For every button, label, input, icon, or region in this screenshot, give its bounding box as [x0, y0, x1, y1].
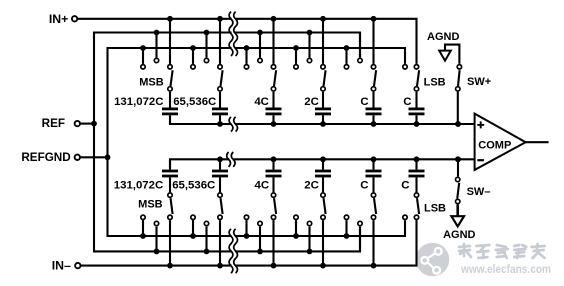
- svg-text:AGND: AGND: [427, 31, 459, 43]
- wire contact stubs switch SC1-top: [347, 19, 374, 64]
- terminal REF: [75, 121, 80, 126]
- junction SW&#8722; / bottom bus: [455, 156, 461, 162]
- svg-text:2C: 2C: [304, 96, 319, 108]
- switch S2C-top: [294, 58, 326, 91]
- svg-text:4C: 4C: [255, 179, 270, 191]
- wire contact stubs switch S65536-top: [193, 19, 220, 64]
- capacitor C (top bit LSB): [409, 92, 425, 124]
- wire break marks, top bus: [229, 117, 237, 132]
- switch SMSB-top: [141, 58, 173, 91]
- switch SMSB-bottom: [141, 193, 173, 226]
- wire REF bus: vertical + top rail 2 + bottom rail 2: [94, 33, 360, 252]
- switch SW&#8722;: [456, 177, 460, 203]
- capacitor C (bottom bit C1): [366, 159, 382, 192]
- svg-text:MSB: MSB: [139, 76, 164, 88]
- wire REFGND bus: vertical + top rail 3 + bottom rail 3: [108, 48, 406, 236]
- junction dots REF bottom rail: [154, 249, 313, 255]
- svg-text:131,072C: 131,072C: [114, 96, 163, 108]
- capacitor 2C (top bit 2C): [315, 92, 331, 124]
- ground AGND (bottom): [451, 216, 464, 226]
- junction dots bottom bus: [217, 156, 461, 162]
- svg-text:AGND: AGND: [443, 229, 475, 241]
- svg-text:C: C: [403, 96, 411, 108]
- svg-text:IN+: IN+: [49, 12, 68, 26]
- switch SW+: [456, 65, 462, 92]
- junction dots REFGND bottom rail: [140, 233, 349, 239]
- wire IN+ rail (top rail 1): [78, 19, 417, 64]
- wire contact stubs switch S65536-bottom: [193, 220, 220, 265]
- terminal REFGND: [75, 155, 80, 160]
- wire REFGND to vertical: [80, 156, 107, 158]
- wire break marks, bottom bus: [227, 152, 235, 167]
- svg-text:REFGND: REFGND: [21, 151, 70, 164]
- svg-text:REF: REF: [42, 117, 65, 130]
- capacitor 4C (bottom bit 4C): [266, 159, 282, 192]
- svg-text:SW–: SW–: [467, 186, 491, 198]
- wire contact stubs switch S2C-bottom: [296, 220, 323, 265]
- svg-text:C: C: [401, 179, 409, 191]
- junction dots top bus: [217, 121, 461, 127]
- switch SC1-bottom: [344, 193, 376, 226]
- wire IN&#8211; rail (bottom rail 1): [81, 220, 417, 265]
- capacitor 65,536C (top bit 65536): [212, 92, 228, 124]
- switch SLSB-top (LSB, 2 contacts): [403, 65, 419, 92]
- wire SW&#8722; to bus: [457, 159, 459, 176]
- switch SC1-top: [344, 58, 376, 91]
- svg-text:www.elecfans.com: www.elecfans.com: [460, 263, 551, 276]
- svg-text:MSB: MSB: [138, 199, 163, 211]
- junction dots REFGND top rail: [140, 45, 349, 51]
- wire contact stubs switch SC1-bottom: [347, 220, 374, 265]
- switch S2C-bottom: [294, 193, 326, 226]
- wire contact stubs switch S2C-top: [296, 19, 323, 64]
- terminal IN+: [72, 16, 77, 21]
- svg-text:65,536C: 65,536C: [173, 96, 216, 108]
- watermark logo circle: [416, 243, 450, 277]
- capacitor 65,536C (bottom bit 65536): [212, 159, 228, 192]
- wire SW+ to bus: [457, 92, 459, 124]
- wire comparator output: [526, 141, 549, 143]
- wire contact stubs switch SMSB-bottom: [143, 220, 170, 265]
- switch SLSB-bottom (LSB, 2 contacts): [403, 193, 419, 220]
- switch S4C-bottom: [244, 193, 276, 226]
- svg-text:4C: 4C: [254, 96, 269, 108]
- svg-text:IN–: IN–: [52, 258, 71, 272]
- junction REF / vertical: [91, 121, 97, 127]
- capacitor 131,072C (top bit MSB): [162, 92, 178, 124]
- svg-text:C: C: [360, 96, 368, 108]
- switch S65536-top: [191, 58, 223, 91]
- op-amp U1 COMP: [475, 114, 526, 170]
- svg-text:2C: 2C: [304, 179, 319, 191]
- pin &#8722; (comparator): [477, 159, 484, 161]
- svg-text:COMP: COMP: [478, 139, 511, 151]
- terminal IN&#8211;: [75, 263, 80, 268]
- pin + (comparator): [477, 121, 484, 128]
- wire contact stubs switch SMSB-top: [143, 19, 170, 64]
- wire contact stubs switch S4C-top: [247, 19, 274, 64]
- svg-text:LSB: LSB: [424, 77, 446, 89]
- wire break marks, top rails: [229, 12, 237, 56]
- wire break marks, bottom rails: [229, 229, 237, 273]
- capacitor C (bottom bit LSB): [409, 159, 425, 192]
- watermark brand glyphs: [459, 244, 545, 258]
- wire bottom comparator bus (&#8722; input): [170, 159, 475, 167]
- capacitor 4C (top bit 4C): [266, 92, 282, 124]
- wire contact stubs switch S4C-bottom: [247, 220, 274, 265]
- junction REFGND / vertical: [105, 154, 111, 160]
- wire SW+ contact to AGND: [445, 45, 459, 64]
- ground AGND (top): [439, 51, 451, 61]
- wire top comparator bus (+ input): [170, 116, 475, 124]
- svg-text:65,536C: 65,536C: [172, 179, 215, 191]
- svg-text:SW+: SW+: [467, 76, 491, 88]
- switch S65536-bottom: [191, 193, 223, 226]
- junction dots IN&#8211; rail: [167, 263, 376, 269]
- svg-text:131,072C: 131,072C: [114, 179, 163, 191]
- wire REF to vertical: [80, 123, 94, 125]
- wire SW&#8722; contact to AGND: [456, 204, 459, 216]
- svg-text:C: C: [360, 179, 368, 191]
- svg-text:LSB: LSB: [424, 203, 446, 215]
- switch S4C-top: [244, 58, 276, 91]
- junction SW+ / top bus: [455, 121, 461, 127]
- junction dots REF top rail: [154, 30, 313, 36]
- capacitor 131,072C (bottom bit MSB): [162, 159, 178, 192]
- capacitor 2C (bottom bit 2C): [315, 159, 331, 192]
- junction dots IN+ rail: [167, 16, 376, 22]
- capacitor C (top bit C1): [366, 92, 382, 124]
